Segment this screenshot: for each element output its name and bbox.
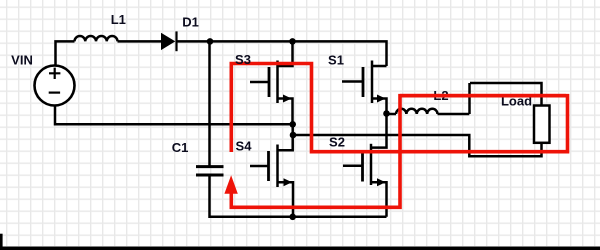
svg-text:L1: L1 xyxy=(111,12,126,27)
svg-text:C1: C1 xyxy=(172,140,189,155)
svg-text:S2: S2 xyxy=(329,135,345,150)
svg-text:S4: S4 xyxy=(236,139,253,154)
svg-text:VIN: VIN xyxy=(11,53,33,68)
svg-text:S3: S3 xyxy=(235,52,251,67)
svg-text:D1: D1 xyxy=(182,15,199,30)
svg-text:S1: S1 xyxy=(328,52,344,67)
